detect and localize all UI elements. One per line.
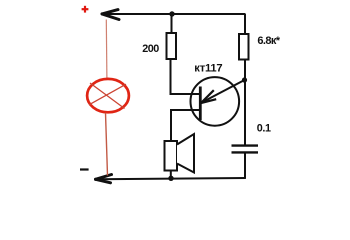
wire bottom rail [96,178,246,179]
resistor R1 200 [167,33,177,59]
wire top rail [102,13,246,15]
node junction top [169,11,174,16]
wire transistor base1 to speaker [171,110,200,142]
lamp HL1 [87,79,129,112]
svg-text:кт117: кт117 [194,63,222,75]
speaker LS1 [165,134,195,173]
wire from top junction to R1 [171,14,173,34]
plus terminal [82,6,89,13]
resistor R2 6.8k [239,34,249,60]
wire red negative lead [106,113,108,176]
node junction emitter tap [242,77,247,82]
node junction bottom [168,176,173,181]
transistor Q1 kt117 [191,77,245,126]
svg-text:0.1: 0.1 [257,123,271,135]
wire speaker to bottom rail [170,171,172,179]
arrow bottom-left [96,175,112,183]
svg-text:6.8к*: 6.8к* [257,35,280,47]
svg-text:200: 200 [142,43,159,55]
minus terminal [80,168,89,170]
arrow top-left [102,10,119,20]
wire red positive lead [105,20,108,79]
wire R1 bottom to transistor base2 [171,59,200,94]
capacitor C1 [232,146,259,153]
wire top rail to R2 [244,14,246,35]
wire R2 bottom to capacitor [244,60,246,146]
wire capacitor to bottom rail [244,153,246,179]
